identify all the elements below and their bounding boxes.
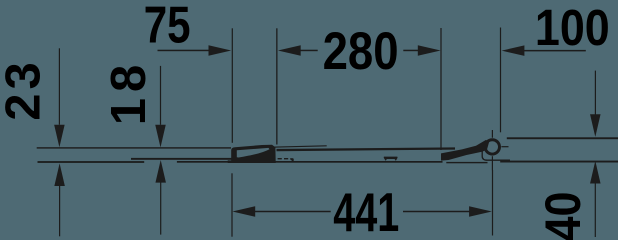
profile: long bottom line L4 [177, 161, 443, 163]
svg-text:441: 441 [333, 183, 399, 240]
small cup buffer [384, 157, 398, 161]
extension line A x=232.2 top [232, 28, 233, 143]
dim line 23: upper tail [59, 48, 60, 124]
bump base bar [228, 160, 267, 162]
bump interior pocket [237, 148, 270, 158]
dim line 18: upper tail [160, 66, 161, 125]
bottom-right line L7 [500, 161, 618, 163]
profile: mid bottom line L3 [131, 158, 232, 160]
profile: front bottom line L2 [38, 161, 145, 163]
dim 18 up arrow tip y=160 [155, 160, 166, 183]
extension line D x=500.4 [500, 28, 501, 133]
dim 40 up arrow tip y=160.9 [590, 161, 601, 184]
dim 280 right arrow (points right, tip 440.6) [418, 45, 441, 56]
extension line B x=276.6 top [276, 28, 277, 144]
svg-text:75: 75 [144, 0, 191, 55]
svg-text:40: 40 [536, 191, 592, 240]
svg-text:280: 280 [323, 22, 399, 81]
hinge crosshair vertical below [492, 156, 493, 170]
extension line C x=440.9 [440, 28, 441, 150]
dim 100 tail [524, 50, 586, 52]
dim 441 right tail [403, 211, 471, 213]
dim 280 right tail [403, 50, 418, 52]
top line behind bump L5 [277, 147, 456, 151]
hinge bump (cover cap) [228, 145, 276, 163]
thin line under foot to hinge [446, 162, 487, 163]
dim 280 left arrow (points left, tip at 277.9) [278, 45, 301, 56]
extension line F x=492.4 bottom (hinge axis) [492, 170, 493, 236]
dim 100 arrow (points left, tip 501.6) [502, 45, 525, 56]
hinge circle [485, 140, 499, 154]
dim 18 lower tail [160, 182, 161, 235]
hinge crosshair vertical above [492, 130, 493, 138]
dim 18 down arrow tip y=147.4 [155, 125, 166, 148]
dim 40 down arrow tip y=136.9 [590, 114, 601, 137]
dim line 40: upper tail x=595.3 [595, 71, 596, 115]
svg-text:23: 23 [0, 58, 50, 121]
dim line 75 tail [158, 50, 209, 52]
top-right cover line L6 [507, 137, 618, 139]
hinge crosshair horizontal right [501, 146, 508, 147]
hidden dashed line [278, 158, 294, 161]
dim 441 left tail [255, 211, 331, 213]
extension line E x=231.9 bottom [231, 173, 232, 236]
dim 441 right arrow (points right, tip 491.9) [469, 206, 492, 217]
bump ridge extension line [272, 145, 327, 148]
profile: top line L1 [37, 147, 231, 148]
dim 40 lower tail [595, 183, 596, 237]
lever arm to hinge [441, 140, 489, 161]
arrow right at x=232 (75 dim) [209, 45, 232, 56]
hinge bracket under circle [482, 151, 510, 160]
svg-text:18: 18 [102, 59, 156, 126]
dim 23 up arrow tip y=162.5 [54, 163, 65, 186]
dim 280 left tail [300, 50, 318, 52]
svg-text:100: 100 [535, 0, 610, 56]
dim 441 left arrow (points left, tip 232.4) [232, 206, 255, 217]
dim 23 lower tail [59, 186, 60, 237]
dim 23 down arrow tip y=147.3 [54, 125, 65, 148]
